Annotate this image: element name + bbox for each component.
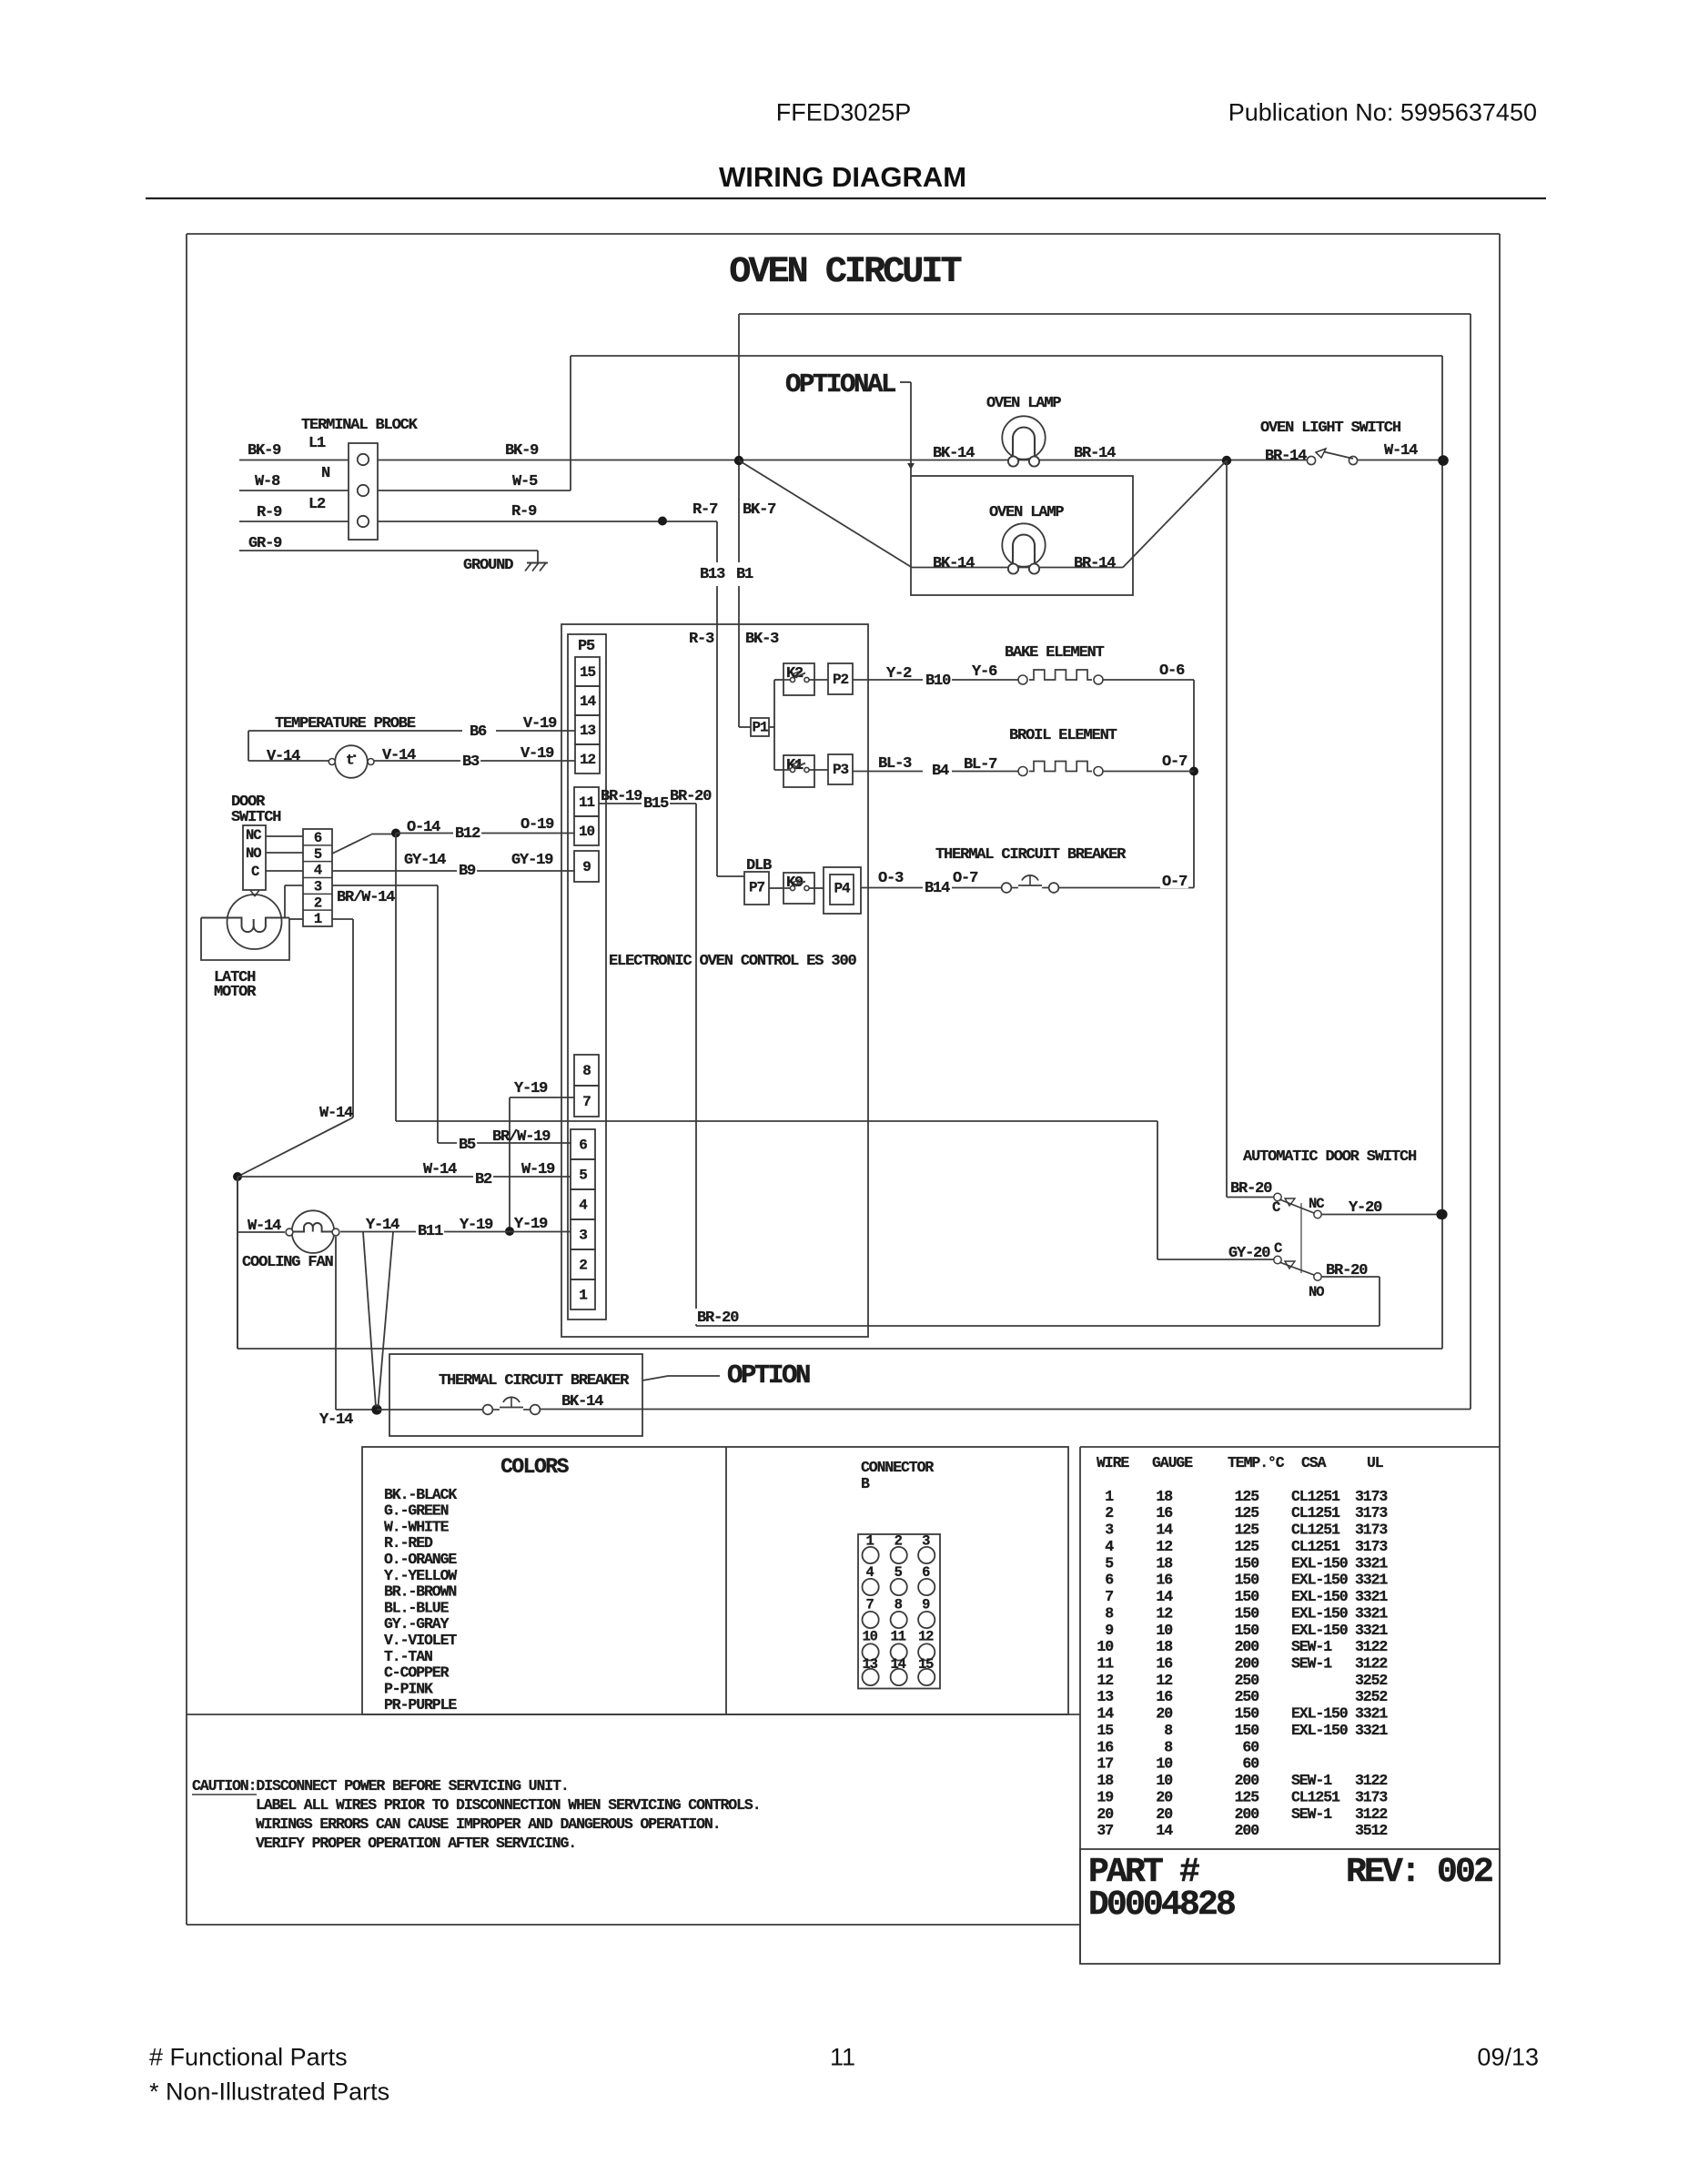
svg-text:19: 19 [1097,1789,1113,1806]
svg-text:CSA: CSA [1301,1454,1327,1471]
svg-text:Y-19: Y-19 [460,1217,493,1234]
svg-text:NO: NO [246,845,261,862]
svg-text:6: 6 [314,830,322,846]
svg-text:B13: B13 [700,566,725,583]
svg-text:O-6: O-6 [1159,662,1185,680]
svg-text:12: 12 [1156,1538,1172,1555]
svg-text:125: 125 [1235,1538,1260,1555]
svg-text:37: 37 [1097,1822,1113,1839]
svg-text:OVEN LAMP: OVEN LAMP [989,504,1064,521]
svg-text:13: 13 [1097,1688,1114,1705]
svg-text:Y-14: Y-14 [319,1411,353,1429]
svg-text:5: 5 [314,846,322,863]
svg-text:3173: 3173 [1355,1789,1388,1806]
svg-text:BK.-BLACK: BK.-BLACK [384,1486,457,1503]
svg-text:O-7: O-7 [953,870,978,887]
svg-text:7: 7 [1105,1588,1113,1605]
svg-text:SEW-1: SEW-1 [1291,1655,1332,1673]
svg-text:14: 14 [580,693,596,710]
svg-text:7: 7 [582,1094,591,1110]
svg-text:20: 20 [1097,1805,1113,1823]
svg-text:TEMP.°C: TEMP.°C [1228,1454,1285,1471]
svg-text:18: 18 [1156,1638,1173,1655]
svg-text:EXL-150: EXL-150 [1291,1622,1348,1639]
svg-text:SEW-1: SEW-1 [1291,1772,1332,1789]
svg-text:13: 13 [580,723,595,739]
svg-text:1: 1 [579,1288,587,1304]
svg-text:THERMAL CIRCUIT BREAKER: THERMAL CIRCUIT BREAKER [935,846,1127,864]
svg-text:GAUGE: GAUGE [1152,1454,1193,1471]
svg-text:* Non-Illustrated Parts: * Non-Illustrated Parts [149,2078,389,2105]
svg-text:R-9: R-9 [511,503,537,521]
svg-text:18: 18 [1097,1772,1114,1789]
svg-text:BAKE ELEMENT: BAKE ELEMENT [1005,644,1105,662]
svg-text:200: 200 [1235,1772,1259,1789]
svg-text:B12: B12 [455,825,480,843]
svg-text:SWITCH: SWITCH [231,809,281,826]
svg-text:B6: B6 [470,723,487,741]
svg-text:TEMPERATURE PROBE: TEMPERATURE PROBE [275,715,416,733]
svg-text:R-7: R-7 [692,501,718,519]
svg-text:14: 14 [1156,1588,1173,1605]
svg-text:12: 12 [580,752,595,768]
svg-text:11: 11 [1097,1655,1114,1673]
svg-text:BR-14: BR-14 [1265,448,1307,465]
svg-text:9: 9 [1105,1622,1113,1639]
svg-text:60: 60 [1242,1738,1258,1755]
svg-text:C: C [251,864,259,880]
svg-text:COLORS: COLORS [500,1455,570,1479]
svg-text:FFED3025P: FFED3025P [776,98,912,126]
svg-text:B9: B9 [459,863,476,880]
svg-text:BR-20: BR-20 [1230,1180,1272,1198]
svg-text:O.-ORANGE: O.-ORANGE [384,1551,457,1568]
svg-text:3252: 3252 [1355,1672,1387,1689]
svg-text:200: 200 [1235,1805,1259,1823]
svg-text:13: 13 [862,1656,877,1673]
svg-text:5: 5 [579,1168,587,1184]
svg-text:EXL-150: EXL-150 [1291,1722,1348,1739]
svg-text:3321: 3321 [1355,1572,1388,1589]
svg-text:P3: P3 [833,762,848,778]
svg-text:C: C [1272,1199,1280,1216]
svg-text:BR/W-19: BR/W-19 [492,1128,551,1146]
svg-text:8: 8 [1164,1738,1173,1755]
svg-text:150: 150 [1235,1572,1259,1589]
svg-text:3: 3 [579,1228,587,1244]
svg-text:6: 6 [579,1137,587,1154]
svg-text:10: 10 [579,824,594,840]
svg-text:3321: 3321 [1355,1554,1388,1572]
svg-text:3122: 3122 [1355,1655,1387,1673]
svg-text:150: 150 [1235,1554,1259,1572]
svg-text:BR-14: BR-14 [1074,445,1116,462]
svg-text:10: 10 [1156,1622,1172,1639]
svg-text:12: 12 [1097,1672,1113,1689]
svg-text:GY-19: GY-19 [511,852,553,869]
svg-text:B3: B3 [462,753,480,771]
svg-text:1: 1 [1105,1488,1114,1505]
svg-text:t: t [346,753,355,769]
svg-text:C: C [1274,1240,1282,1257]
svg-text:P1: P1 [753,720,768,736]
svg-text:3: 3 [314,879,322,895]
svg-text:8: 8 [1105,1604,1114,1622]
svg-text:BR-20: BR-20 [697,1309,739,1327]
svg-text:B2: B2 [475,1171,492,1188]
svg-text:N: N [321,465,330,482]
svg-text:V.-VIOLET: V.-VIOLET [384,1632,457,1649]
svg-text:C-COPPER: C-COPPER [384,1664,450,1682]
svg-text:UL: UL [1367,1454,1384,1471]
svg-text:10: 10 [1156,1755,1172,1773]
svg-text:L1: L1 [308,435,326,452]
svg-text:BK-9: BK-9 [505,442,539,460]
svg-text:W.-WHITE: W.-WHITE [384,1518,450,1535]
svg-text:B5: B5 [459,1137,476,1154]
svg-text:EXL-150: EXL-150 [1291,1705,1348,1723]
svg-text:BL-3: BL-3 [878,755,912,773]
svg-text:9: 9 [922,1597,930,1613]
svg-text:G.-GREEN: G.-GREEN [384,1502,449,1520]
svg-text:250: 250 [1235,1688,1259,1705]
svg-text:14: 14 [1097,1705,1114,1723]
svg-text:14: 14 [1156,1822,1173,1839]
svg-text:BROIL ELEMENT: BROIL ELEMENT [1009,727,1117,744]
svg-text:BR-20: BR-20 [670,788,712,805]
svg-text:W-14: W-14 [1384,442,1418,460]
svg-text:5: 5 [1105,1554,1114,1572]
svg-text:125: 125 [1235,1504,1260,1522]
svg-text:W-5: W-5 [512,473,538,490]
svg-text:16: 16 [1156,1688,1172,1705]
svg-text:W-8: W-8 [255,473,280,490]
svg-text:15: 15 [1097,1722,1114,1739]
svg-text:15: 15 [580,664,595,681]
svg-text:8: 8 [1164,1722,1173,1739]
svg-text:B11: B11 [418,1223,443,1240]
svg-text:W-14: W-14 [248,1218,281,1235]
svg-text:B15: B15 [643,795,669,813]
svg-text:12: 12 [1156,1672,1172,1689]
svg-text:CL1251: CL1251 [1291,1789,1340,1806]
svg-text:O-14: O-14 [407,819,440,836]
svg-text:V-14: V-14 [382,747,416,764]
svg-text:2: 2 [895,1533,903,1550]
svg-text:200: 200 [1235,1655,1259,1673]
svg-text:3173: 3173 [1355,1488,1388,1505]
svg-text:4: 4 [866,1564,874,1581]
svg-text:20: 20 [1156,1789,1172,1806]
svg-text:3122: 3122 [1355,1772,1387,1789]
svg-text:BK-7: BK-7 [743,501,776,519]
svg-text:BR-14: BR-14 [1074,555,1116,572]
svg-text:8: 8 [582,1063,591,1079]
svg-text:B: B [861,1475,870,1492]
svg-text:12: 12 [918,1629,934,1645]
svg-text:OPTION: OPTION [727,1360,810,1390]
svg-text:OVEN LAMP: OVEN LAMP [986,395,1061,412]
svg-text:3321: 3321 [1355,1622,1388,1639]
svg-text:P4: P4 [834,881,851,897]
svg-text:V-14: V-14 [267,748,300,765]
svg-text:O-7: O-7 [1162,874,1188,891]
svg-text:CL1251: CL1251 [1291,1522,1340,1539]
svg-text:PR-PURPLE: PR-PURPLE [384,1696,457,1714]
svg-text:Y-19: Y-19 [514,1216,548,1233]
svg-text:20: 20 [1156,1705,1172,1723]
svg-text:WIRINGS ERRORS CAN CAUSE IMPRO: WIRINGS ERRORS CAN CAUSE IMPROPER AND DA… [256,1815,721,1833]
svg-text:4: 4 [1105,1538,1114,1555]
svg-text:3321: 3321 [1355,1604,1388,1622]
svg-text:11: 11 [830,2043,855,2070]
svg-text:10: 10 [862,1629,877,1645]
svg-text:BK-14: BK-14 [933,445,975,462]
svg-text:20: 20 [1156,1805,1172,1823]
svg-text:1: 1 [314,911,322,927]
svg-text:CL1251: CL1251 [1291,1488,1340,1505]
svg-text:2: 2 [579,1258,587,1274]
svg-text:EXL-150: EXL-150 [1291,1588,1348,1605]
svg-text:COOLING FAN: COOLING FAN [242,1254,334,1271]
svg-text:W-14: W-14 [319,1105,353,1122]
svg-text:B4: B4 [932,763,949,780]
svg-text:150: 150 [1235,1604,1259,1622]
svg-text:GROUND: GROUND [463,557,513,574]
svg-text:AUTOMATIC DOOR SWITCH: AUTOMATIC DOOR SWITCH [1243,1148,1417,1166]
svg-text:WIRING DIAGRAM: WIRING DIAGRAM [719,161,966,193]
svg-text:THERMAL CIRCUIT BREAKER: THERMAL CIRCUIT BREAKER [439,1372,630,1390]
svg-text:18: 18 [1156,1554,1173,1572]
svg-text:14: 14 [891,1656,906,1673]
svg-text:Y-19: Y-19 [514,1080,548,1097]
svg-text:BK-14: BK-14 [561,1393,603,1410]
svg-text:V-19: V-19 [523,715,557,733]
svg-text:150: 150 [1235,1622,1259,1639]
svg-text:MOTOR: MOTOR [214,984,257,1001]
svg-text:NO: NO [1309,1284,1324,1300]
svg-text:3321: 3321 [1355,1705,1388,1723]
svg-text:200: 200 [1235,1638,1259,1655]
svg-text:BL.-BLUE: BL.-BLUE [384,1599,450,1616]
svg-text:6: 6 [922,1564,930,1581]
svg-text:EXL-150: EXL-150 [1291,1572,1348,1589]
svg-text:Y-2: Y-2 [886,665,912,682]
svg-text:ELECTRONIC OVEN CONTROL ES 300: ELECTRONIC OVEN CONTROL ES 300 [609,953,856,970]
svg-text:GY-20: GY-20 [1228,1245,1270,1262]
svg-text:Y-6: Y-6 [972,663,997,681]
svg-text:16: 16 [1097,1738,1113,1755]
svg-text:O-3: O-3 [878,870,904,887]
svg-text:250: 250 [1235,1672,1259,1689]
svg-text:10: 10 [1097,1638,1113,1655]
svg-text:150: 150 [1235,1722,1259,1739]
svg-text:OPTIONAL: OPTIONAL [785,369,895,399]
svg-text:O-7: O-7 [1162,753,1188,771]
svg-text:1: 1 [866,1533,874,1550]
svg-text:18: 18 [1156,1488,1173,1505]
svg-text:T.-TAN: T.-TAN [384,1648,432,1665]
svg-text:3173: 3173 [1355,1522,1388,1539]
svg-text:R.-RED: R.-RED [384,1534,433,1552]
svg-text:3173: 3173 [1355,1504,1388,1522]
svg-text:12: 12 [1156,1604,1172,1622]
svg-text:P2: P2 [833,672,848,688]
svg-text:WIRE: WIRE [1097,1454,1129,1471]
svg-text:Y.-YELLOW: Y.-YELLOW [384,1567,457,1584]
svg-text:B10: B10 [925,672,951,690]
svg-text:4: 4 [314,863,322,879]
svg-text:R-9: R-9 [257,504,282,521]
svg-text:B1: B1 [736,566,753,583]
svg-text:14: 14 [1156,1522,1173,1539]
svg-text:16: 16 [1156,1572,1172,1589]
svg-text:150: 150 [1235,1705,1259,1723]
svg-text:SEW-1: SEW-1 [1291,1805,1332,1823]
svg-text:3: 3 [922,1533,930,1550]
svg-text:17: 17 [1097,1755,1113,1773]
svg-text:16: 16 [1156,1504,1172,1522]
svg-text:VERIFY PROPER OPERATION AFTER: VERIFY PROPER OPERATION AFTER SERVICING. [256,1835,576,1852]
svg-text:P7: P7 [749,880,764,896]
svg-text:3: 3 [1105,1522,1114,1539]
svg-text:W-19: W-19 [521,1161,555,1178]
svg-text:BR/W-14: BR/W-14 [337,889,395,906]
svg-text:O-19: O-19 [521,816,554,834]
svg-text:15: 15 [918,1656,934,1673]
svg-text:EXL-150: EXL-150 [1291,1604,1348,1622]
svg-text:11: 11 [891,1629,906,1645]
svg-text:GY.-GRAY: GY.-GRAY [384,1615,450,1633]
svg-text:EXL-150: EXL-150 [1291,1554,1348,1572]
svg-text:3252: 3252 [1355,1688,1387,1705]
svg-text:W-14: W-14 [423,1161,457,1178]
svg-text:11: 11 [579,794,594,811]
svg-text:200: 200 [1235,1822,1259,1839]
svg-text:BR-19: BR-19 [601,788,642,805]
svg-text:BK-14: BK-14 [933,555,975,572]
svg-text:3122: 3122 [1355,1805,1387,1823]
svg-text:L2: L2 [308,496,326,513]
svg-text:NC: NC [246,827,261,844]
svg-text:125: 125 [1235,1789,1260,1806]
svg-text:GY-14: GY-14 [404,852,446,869]
svg-text:125: 125 [1235,1522,1260,1539]
svg-text:Publication No: 5995637450: Publication No: 5995637450 [1228,98,1537,126]
svg-text:16: 16 [1156,1655,1172,1673]
svg-text:NC: NC [1309,1196,1324,1212]
svg-text:60: 60 [1242,1755,1258,1773]
svg-text:LABEL ALL WIRES PRIOR TO DISCO: LABEL ALL WIRES PRIOR TO DISCONNECTION W… [256,1796,761,1814]
svg-text:BK-3: BK-3 [745,631,779,648]
svg-text:10: 10 [1156,1772,1172,1789]
svg-text:BK-9: BK-9 [248,442,281,460]
svg-text:Y-14: Y-14 [366,1217,399,1234]
svg-text:R-3: R-3 [689,631,714,648]
svg-text:OVEN LIGHT SWITCH: OVEN LIGHT SWITCH [1260,420,1401,437]
svg-text:3122: 3122 [1355,1638,1387,1655]
svg-text:150: 150 [1235,1588,1259,1605]
svg-text:8: 8 [895,1597,903,1613]
svg-text:CONNECTOR: CONNECTOR [861,1459,934,1476]
svg-text:3321: 3321 [1355,1588,1388,1605]
svg-text:BR.-BROWN: BR.-BROWN [384,1583,456,1601]
svg-text:9: 9 [582,859,591,875]
svg-text:P5: P5 [578,638,595,655]
svg-text:3512: 3512 [1355,1822,1387,1839]
svg-text:V-19: V-19 [521,745,554,763]
svg-text:# Functional Parts: # Functional Parts [149,2043,348,2070]
svg-text:3173: 3173 [1355,1538,1388,1555]
svg-text:3321: 3321 [1355,1722,1388,1739]
svg-text:REV: 002: REV: 002 [1346,1853,1492,1892]
svg-text:CL1251: CL1251 [1291,1504,1340,1522]
svg-text:D0004828: D0004828 [1088,1886,1235,1925]
svg-text:7: 7 [866,1597,874,1613]
svg-text:2: 2 [314,895,322,911]
svg-text:SEW-1: SEW-1 [1291,1638,1332,1655]
svg-text:09/13: 09/13 [1477,2043,1539,2070]
svg-text:OVEN CIRCUIT: OVEN CIRCUIT [729,252,961,293]
svg-text:TERMINAL BLOCK: TERMINAL BLOCK [301,417,419,434]
svg-text:6: 6 [1105,1572,1113,1589]
svg-text:P-PINK: P-PINK [384,1680,433,1697]
svg-text:CAUTION:DISCONNECT POWER BEFOR: CAUTION:DISCONNECT POWER BEFORE SERVICIN… [192,1777,569,1795]
svg-text:2: 2 [1105,1504,1113,1522]
svg-text:5: 5 [895,1564,903,1581]
svg-text:125: 125 [1235,1488,1260,1505]
svg-text:CL1251: CL1251 [1291,1538,1340,1555]
svg-text:B14: B14 [925,880,950,897]
